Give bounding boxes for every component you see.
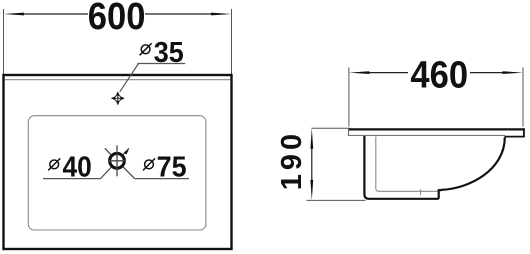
basin bowl curve (441, 137, 505, 190)
rim bottom edge thick right (505, 136, 525, 138)
drain crosshair horizontal (109, 160, 126, 162)
dim 190 arrow bottom (310, 180, 313, 201)
svg-text:460: 460 (410, 53, 468, 96)
dim 460 extension line right (522, 68, 524, 127)
dia75 label (143, 151, 187, 183)
basin outer rect (4, 75, 232, 249)
dim 190 extension line bottom (307, 199, 366, 201)
dim 190 extension line top (311, 127, 350, 129)
dia75 underline (135, 178, 189, 180)
dim 600 extension line left (3, 9, 5, 75)
dia40 label (48, 150, 92, 182)
dim 600 extension line right (231, 9, 233, 75)
dim 460 extension line left (348, 68, 350, 127)
drain crosshair vertical (116, 145, 118, 176)
dim 190 dimension line (311, 147, 313, 182)
dia35 underline (137, 63, 185, 65)
dia75 leader diagonal (105, 148, 135, 178)
rim right cap (523, 128, 525, 137)
dia40 leader arrowhead (124, 150, 129, 155)
dia40 underline (43, 178, 101, 180)
dia40 leader diagonal (101, 148, 130, 178)
dim 600 arrow left (4, 13, 25, 16)
basin inner wall thin (376, 137, 438, 192)
rim left cap (348, 128, 350, 136)
dim 460 dimension line (367, 72, 408, 74)
dia35 leader (120, 64, 139, 92)
faucet hole symbol (111, 92, 124, 105)
basin inner bowl rounded rect (28, 116, 206, 230)
basin step (439, 190, 442, 199)
rim bottom edge thin (349, 134, 506, 136)
dim 600 arrow right (211, 13, 232, 16)
drain hole ring (110, 153, 125, 168)
dim 600 dimension line (22, 13, 88, 15)
rim top edge (349, 128, 525, 130)
svg-text:75: 75 (157, 151, 187, 183)
dim 460 arrow left (349, 71, 370, 74)
dia35 label (140, 36, 184, 68)
dim 460 arrow right (503, 71, 524, 74)
rim front edge line (5, 79, 231, 81)
basin outer wall left (364, 136, 438, 199)
svg-text:40: 40 (63, 150, 92, 182)
svg-text:190: 190 (276, 130, 308, 190)
basin inner tick (420, 189, 422, 195)
dim 190 arrow top (310, 128, 313, 149)
svg-text:600: 600 (88, 0, 146, 38)
